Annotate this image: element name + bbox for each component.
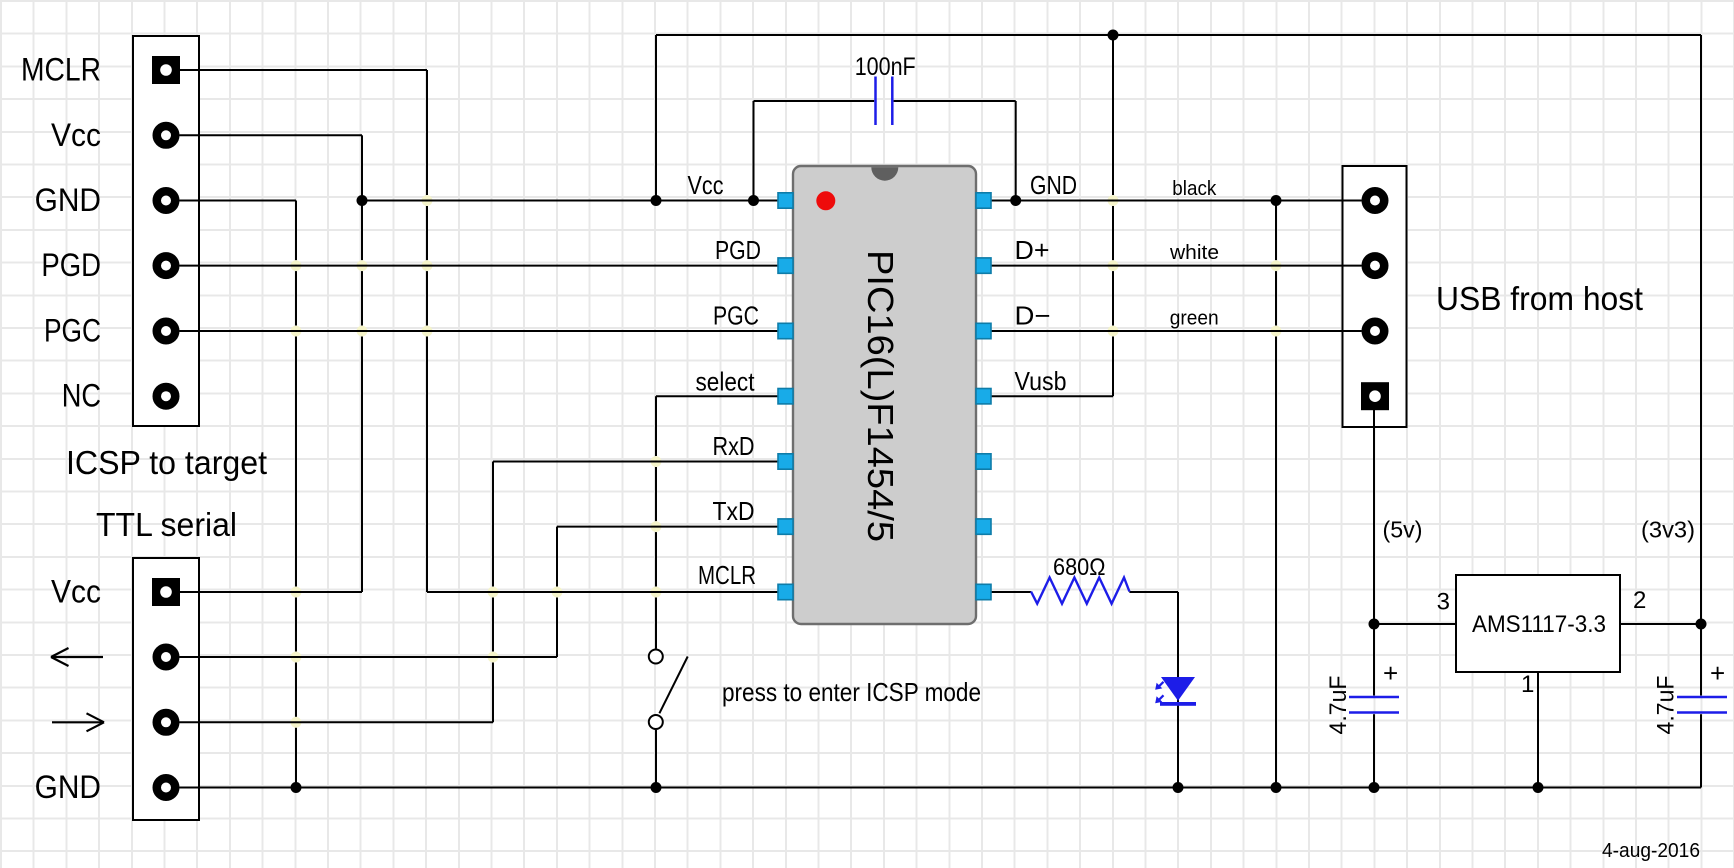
svg-text:1: 1 <box>1521 671 1534 698</box>
svg-text:GND: GND <box>35 182 101 218</box>
svg-text:680Ω: 680Ω <box>1053 554 1106 581</box>
svg-text:select: select <box>696 366 756 396</box>
svg-text:MCLR: MCLR <box>21 52 101 88</box>
svg-text:(5v): (5v) <box>1383 517 1423 543</box>
svg-text:GND: GND <box>1030 170 1077 200</box>
svg-text:+: + <box>1710 658 1725 688</box>
svg-text:Vcc: Vcc <box>51 574 101 610</box>
svg-text:2: 2 <box>1633 587 1646 614</box>
svg-text:white: white <box>1169 242 1219 264</box>
svg-text:black: black <box>1172 178 1217 200</box>
svg-text:4.7uF: 4.7uF <box>1653 676 1680 735</box>
svg-text:ICSP to target: ICSP to target <box>66 444 267 481</box>
svg-text:+: + <box>1383 658 1398 688</box>
svg-text:Vcc: Vcc <box>51 117 101 153</box>
svg-text:PGD: PGD <box>41 247 101 283</box>
svg-text:(3v3): (3v3) <box>1641 517 1695 543</box>
svg-text:RxD: RxD <box>713 431 755 461</box>
svg-text:PGC: PGC <box>713 301 759 331</box>
svg-text:3: 3 <box>1437 589 1450 616</box>
svg-text:PGD: PGD <box>715 235 761 265</box>
svg-text:AMS1117-3.3: AMS1117-3.3 <box>1472 611 1606 638</box>
svg-text:100nF: 100nF <box>855 53 916 81</box>
svg-text:TxD: TxD <box>713 496 755 526</box>
svg-text:PIC16(L)F1454/5: PIC16(L)F1454/5 <box>860 250 901 542</box>
svg-text:NC: NC <box>62 378 101 414</box>
svg-text:PGC: PGC <box>44 313 101 349</box>
svg-text:Vcc: Vcc <box>688 170 724 200</box>
svg-text:press to enter ICSP mode: press to enter ICSP mode <box>722 677 981 707</box>
svg-text:4.7uF: 4.7uF <box>1325 676 1352 735</box>
svg-text:USB from host: USB from host <box>1436 280 1643 317</box>
svg-text:D−: D− <box>1015 301 1051 331</box>
svg-text:green: green <box>1170 308 1219 330</box>
svg-text:Vusb: Vusb <box>1015 366 1067 396</box>
svg-text:MCLR: MCLR <box>698 560 756 590</box>
svg-text:TTL serial: TTL serial <box>96 506 237 543</box>
svg-text:4-aug-2016: 4-aug-2016 <box>1602 840 1700 862</box>
svg-text:D+: D+ <box>1015 235 1050 265</box>
svg-text:GND: GND <box>35 769 101 805</box>
